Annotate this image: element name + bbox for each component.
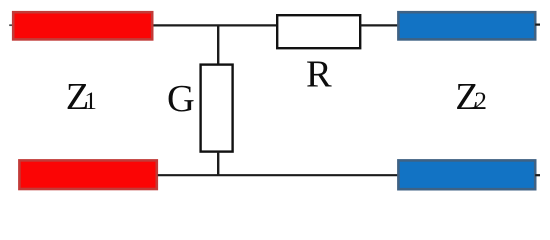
wire: shunt lead from G to bottom rail xyxy=(217,152,219,176)
svg-text:R: R xyxy=(306,54,332,96)
wire: shunt drop from top rail to G xyxy=(217,25,219,65)
svg-text:G: G xyxy=(167,78,195,120)
transmission line Z2 bottom bar xyxy=(398,160,535,189)
wire: top rail from Z1 to R xyxy=(154,24,278,26)
wire: top rail from R to Z2 xyxy=(360,24,398,26)
svg-text:2: 2 xyxy=(474,88,487,115)
conductance G body xyxy=(201,65,233,152)
wire stub left of Z1 top xyxy=(9,24,13,26)
transmission line Z1 top bar xyxy=(13,12,152,39)
resistor R body xyxy=(277,15,360,48)
transmission line Z2 top bar xyxy=(398,12,535,39)
transmission line Z1 bottom bar xyxy=(19,160,156,189)
wire stub right of Z2 bottom xyxy=(535,174,540,176)
svg-text:1: 1 xyxy=(84,88,97,115)
wire: bottom rail from Z1 to Z2 xyxy=(158,174,398,176)
wire stub right of Z2 top xyxy=(535,24,540,26)
